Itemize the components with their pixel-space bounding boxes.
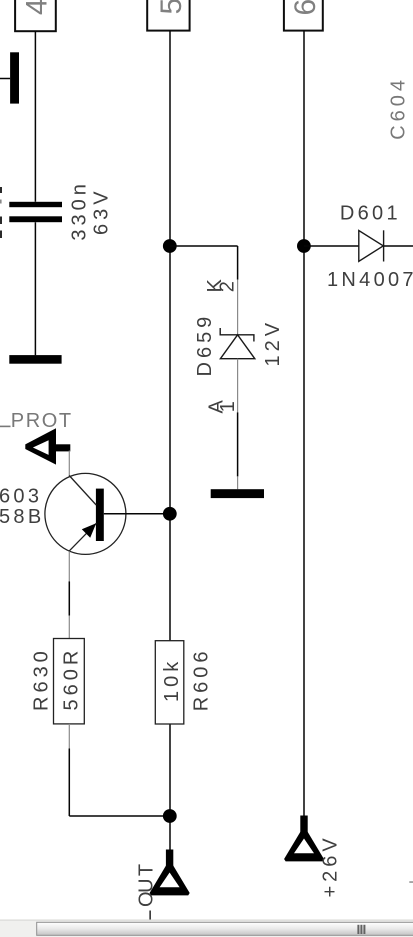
svg-text:R606: R606: [190, 647, 212, 711]
svg-text:12V: 12V: [262, 319, 284, 367]
net wire to R630: [68, 581, 70, 615]
R630 top pin: [68, 616, 70, 639]
svg-text:63V: 63V: [91, 187, 113, 235]
svg-text:+26V: +26V: [320, 834, 342, 897]
ground pin: [237, 476, 239, 489]
svg-text:58B: 58B: [0, 506, 45, 528]
R630 bottom pin: [68, 724, 70, 749]
transistor base lead wire to node: [104, 513, 170, 515]
resistor R630 body: [54, 639, 85, 724]
diode D601 triangle: [359, 231, 384, 262]
transistor base bar: [96, 489, 104, 541]
sheet port box 5: [147, 0, 189, 31]
svg-text:PROT: PROT: [11, 410, 73, 432]
-OUT connector symbol: [150, 850, 190, 896]
zener diode D659 triangle: [220, 335, 254, 359]
net wire from junction to zener branch: [170, 245, 238, 247]
net wire to diode D601: [304, 245, 359, 247]
cut-off rotated label fragments at left edge: [0, 187, 2, 238]
svg-text:6: 6: [289, 0, 322, 16]
svg-text:603: 603: [0, 486, 42, 508]
net wire zener to ground: [237, 412, 239, 476]
capacitor C604 plate 1: [9, 202, 62, 207]
net wire from diode to right edge: [384, 245, 413, 247]
svg-text:C604: C604: [388, 76, 410, 140]
application bottom panel with horizontal scrollbar: [0, 920, 413, 937]
main vertical net wire from box 5: [169, 31, 171, 850]
svg-text:U: U: [136, 874, 158, 892]
main vertical net wire from box 6: [303, 31, 305, 816]
net wire R630 down: [68, 749, 70, 817]
wire to left cap plate: [0, 78, 10, 80]
svg-text:D601: D601: [340, 203, 401, 225]
junction node at transistor base: [163, 507, 177, 521]
diode D601 cathode bar: [383, 230, 385, 261]
capacitor C604 plate 2: [9, 216, 62, 222]
svg-text:4: 4: [21, 0, 54, 15]
transistor collector diagonal: [69, 476, 96, 506]
svg-text:D659: D659: [194, 313, 216, 377]
ground symbol under zener: [211, 489, 264, 498]
transistor emitter arrowhead (PNP): [82, 523, 96, 538]
svg-text:1: 1: [217, 401, 239, 412]
junction node at top: [163, 239, 177, 253]
net label _PROT: [0, 426, 11, 428]
junction node at diode branch: [297, 239, 311, 253]
zener cathode pin: [237, 280, 239, 335]
wire net A: capacitor bottom plate to ground: [34, 222, 36, 355]
svg-text:T: T: [136, 860, 158, 876]
sheet port box 4: [15, 0, 56, 31]
zener anode pin: [237, 359, 239, 413]
svg-text:10k: 10k: [161, 658, 183, 702]
svg-text:1N4007: 1N4007: [327, 269, 413, 291]
net wire horizontal to -OUT node: [69, 815, 170, 817]
svg-text:330n: 330n: [69, 180, 91, 241]
svg-text:5: 5: [155, 0, 188, 15]
ground symbol under capacitor: [9, 355, 61, 364]
cut-off gray label fragment at right edge: [409, 881, 413, 883]
svg-text:560R: 560R: [61, 647, 83, 711]
resistor R606 body: [155, 641, 184, 724]
junction node at -OUT: [163, 809, 177, 823]
svg-text:2: 2: [217, 281, 239, 292]
pin wire from _PROT arrow down to transistor collector: [68, 451, 70, 478]
net label -OUT: [136, 860, 158, 920]
sheet port box 6: [284, 0, 323, 31]
transistor T603 BC558B circle: [45, 473, 126, 554]
transistor emitter diagonal: [69, 523, 96, 551]
emitter pin below transistor: [68, 551, 70, 581]
connector arrow _PROT pointing left: [25, 428, 70, 464]
zener diode D659 cathode bar: [220, 328, 254, 342]
+26V connector symbol: [284, 816, 324, 862]
svg-text:R630: R630: [30, 647, 52, 711]
capacitor C6xx plate of polarized cap at left edge: [10, 52, 19, 103]
wire net A: box4 to capacitor top plate: [34, 31, 36, 202]
